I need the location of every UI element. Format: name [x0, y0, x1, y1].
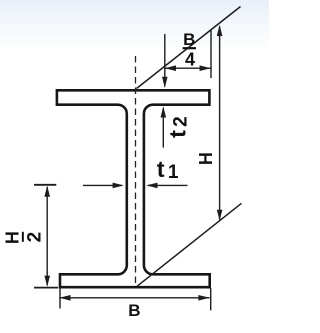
- extension line B left: [59, 288, 61, 309]
- extension line B right: [210, 288, 212, 310]
- arrowhead H bottom (points down): [217, 210, 223, 221]
- oblique extension line (bottom, from beam bottom up to the right): [137, 203, 242, 286]
- label t2 (rotated): [164, 116, 191, 138]
- arrowhead H/2 top (points up): [44, 186, 50, 197]
- arrowhead onto web right side (points left): [146, 183, 157, 189]
- svg-text:B: B: [183, 30, 195, 49]
- arrowhead onto flange underside (points up): [161, 106, 167, 117]
- oblique extension line (top, from beam top to upper right corner): [137, 7, 241, 89]
- svg-text:1: 1: [168, 162, 179, 183]
- svg-text:H: H: [3, 231, 23, 244]
- arrowhead onto flange top (points down): [162, 77, 168, 88]
- t1 left leader line: [83, 184, 122, 186]
- arrowhead B left (points left): [59, 295, 70, 301]
- extension line left of B/4 / t2 upper leader: [164, 34, 166, 87]
- t1 right leader line: [148, 184, 188, 186]
- svg-text:t: t: [157, 156, 165, 182]
- arrowhead H/2 bottom (points down): [44, 276, 50, 287]
- dimension line H/2 (vertical, left side): [46, 187, 48, 285]
- extension line right of B/4: [210, 30, 212, 78]
- arrowhead H top (points up): [217, 25, 223, 36]
- fraction bar of B/4: [183, 47, 196, 49]
- svg-text:4: 4: [185, 49, 195, 69]
- svg-text:2: 2: [171, 116, 192, 127]
- t2 leader line (vertical, below flange): [162, 108, 164, 148]
- arrowhead B/4 right (points right): [200, 65, 211, 71]
- dimension line H (vertical, right side): [219, 27, 221, 220]
- label H/2 (rotated fraction): [3, 231, 46, 244]
- dashed vertical centerline: [135, 56, 137, 287]
- svg-text:t: t: [164, 130, 190, 138]
- arrowhead B right (points right): [198, 295, 209, 301]
- svg-text:B: B: [128, 301, 140, 320]
- I-beam cross-section outline: [57, 90, 210, 287]
- dimension line B/4 (horizontal, top): [165, 67, 211, 69]
- extension tick at beam bottom: [34, 287, 58, 289]
- dimension line B (horizontal, bottom): [59, 297, 209, 299]
- svg-text:H: H: [196, 152, 216, 165]
- arrowhead B/4 left (points left): [165, 65, 176, 71]
- arrowhead onto web left side (points right): [113, 183, 124, 189]
- svg-text:2: 2: [24, 232, 45, 243]
- extension tick at mid-height: [34, 184, 56, 186]
